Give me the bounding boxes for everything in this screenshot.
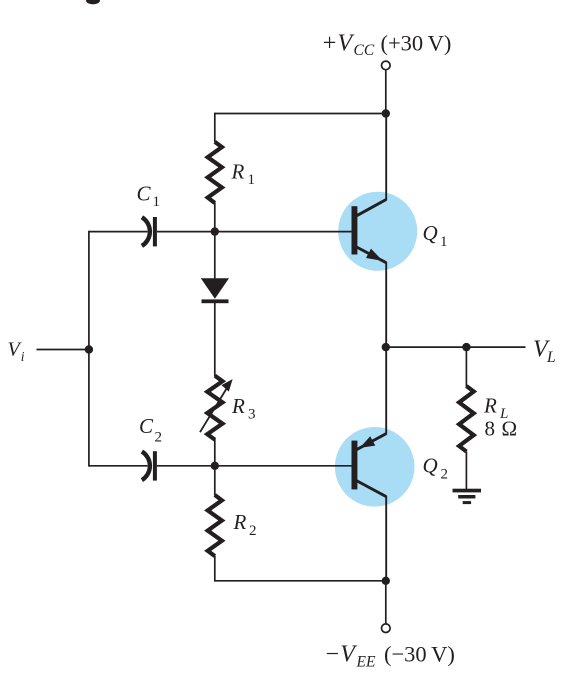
svg-text:Ω: Ω	[502, 417, 518, 441]
wire: bottom junction to -VEE terminal	[385, 581, 387, 624]
svg-text:(+30 V): (+30 V)	[381, 30, 452, 55]
svg-text:−V: −V	[324, 642, 357, 668]
svg-text:3: 3	[248, 406, 256, 422]
resistor R3 (variable)	[200, 376, 233, 440]
svg-text:2: 2	[441, 466, 449, 482]
label C2	[139, 414, 162, 446]
label Q1	[423, 221, 448, 250]
ground	[453, 489, 482, 504]
wire: C2 to Q2 base	[157, 465, 352, 467]
supply terminal -VEE	[382, 624, 391, 633]
node: Q1 base junction	[211, 227, 219, 235]
label RL 8 ohm	[483, 394, 517, 441]
transistor Q1 (NPN)	[352, 200, 387, 263]
wire: output node down to Q2 emitter	[385, 347, 387, 434]
svg-text:R: R	[231, 394, 245, 418]
page artifact: cut-off text blob at top	[86, 0, 100, 4]
node: top junction	[382, 109, 390, 117]
resistor RL	[459, 386, 474, 451]
wire: R2 bottom lead	[214, 556, 216, 582]
transistor Q2 (PNP)	[352, 434, 387, 497]
supply terminal +VCC	[382, 61, 391, 70]
svg-text:L: L	[546, 349, 556, 366]
wire: C1 left lead	[89, 231, 148, 233]
label R1	[231, 160, 256, 188]
label Vi	[8, 339, 25, 365]
wire: C2 left lead	[89, 465, 148, 467]
transistor Q1 highlight circle	[338, 192, 417, 271]
svg-text:8: 8	[485, 417, 496, 441]
svg-text:2: 2	[155, 429, 163, 445]
wire: Q1 emitter down to output node	[385, 262, 387, 347]
label Q2	[423, 454, 449, 483]
svg-text:R: R	[233, 510, 247, 534]
wire: RL top lead	[465, 347, 467, 386]
svg-text:Q: Q	[423, 454, 438, 478]
wire: top horizontal	[215, 113, 386, 115]
svg-text:1: 1	[440, 234, 448, 250]
node: output junction	[382, 343, 390, 351]
resistor R1	[208, 142, 222, 203]
transistor Q2 highlight circle	[335, 427, 415, 507]
node: Vi tap junction	[85, 345, 93, 353]
wire: R3 bottom lead	[214, 439, 216, 466]
svg-text:R: R	[231, 160, 245, 184]
wire: C1 to Q1 base	[157, 231, 352, 233]
svg-text:1: 1	[248, 172, 256, 188]
wire: left branch vertical	[88, 231, 90, 467]
svg-text:1: 1	[153, 194, 161, 210]
svg-text:(−30 V): (−30 V)	[384, 642, 455, 667]
node: Q2 base junction	[211, 462, 219, 470]
diode D1	[201, 278, 229, 303]
svg-text:+V: +V	[321, 30, 354, 56]
svg-text:Q: Q	[423, 221, 438, 245]
node: bottom junction	[382, 577, 390, 585]
wire: Vi input lead	[37, 349, 89, 351]
label R3	[231, 394, 256, 422]
wire: Q1 collector up to top junction	[385, 114, 387, 201]
svg-text:i: i	[21, 349, 25, 364]
capacitor C1	[142, 217, 157, 246]
wire: diode anode lead	[214, 232, 216, 279]
wire: RL bottom lead to ground	[465, 452, 467, 491]
label C1	[137, 182, 161, 210]
svg-text:R: R	[483, 394, 497, 418]
svg-text:EE: EE	[356, 654, 376, 671]
svg-text:2: 2	[249, 523, 257, 539]
node: RL tap junction	[462, 343, 470, 351]
wire: diode cathode to R3	[214, 303, 216, 376]
wire: Q2 collector down to bottom junction	[385, 496, 387, 581]
wire: R1 bottom lead	[214, 202, 216, 231]
label VL	[533, 336, 556, 365]
label -VEE (-30 V)	[324, 642, 455, 671]
wire: bottom horizontal	[215, 580, 386, 582]
label R2	[233, 510, 257, 539]
wire: VCC terminal to top junction	[385, 70, 387, 114]
svg-text:C: C	[139, 414, 154, 438]
wire: R2 top lead	[214, 466, 216, 496]
svg-text:CC: CC	[354, 42, 375, 59]
resistor R2	[208, 495, 222, 556]
svg-text:C: C	[137, 182, 152, 206]
label +VCC (+30 V)	[321, 30, 451, 59]
wire: R1 top lead	[214, 113, 216, 142]
wire: output horizontal to VL	[386, 346, 526, 348]
capacitor C2	[142, 451, 157, 480]
